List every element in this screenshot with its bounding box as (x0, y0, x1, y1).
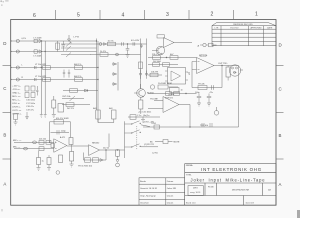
capacitor C1 (62, 41, 66, 51)
capacitor C7 (145, 71, 148, 79)
transistor Q2 legs (134, 89, 144, 97)
op-amp U5 (89, 145, 100, 156)
approval table (139, 178, 185, 205)
resistor R28 (46, 140, 51, 144)
resistor R29 (39, 147, 44, 151)
wire switch feed (124, 121, 126, 158)
svg-text:B: B (3, 133, 6, 138)
wire mid chain (90, 54, 141, 56)
svg-text:C16 100n: C16 100n (26, 100, 36, 102)
wire A1 out (174, 42, 192, 44)
wire drop x109 (108, 134, 110, 148)
wire output bus vertical (238, 66, 240, 128)
border frame tick top 3 (144, 10, 146, 20)
svg-text:6k8 1%: 6k8 1% (74, 76, 81, 78)
node tp junction (117, 149, 118, 150)
resistor R26 vertical (139, 100, 143, 109)
resistor R12 vertical (112, 110, 116, 119)
wire U3 in1 (154, 100, 163, 102)
capacitor C25 (130, 115, 136, 120)
svg-text:Joker Input Mike-Line-Tape: Joker Input Mike-Line-Tape (191, 177, 266, 182)
resistor R3 (100, 53, 108, 57)
wire top chain (97, 43, 147, 45)
op-amp U2 inputs (192, 62, 200, 70)
diode D5 (112, 63, 117, 66)
svg-text:REVISION RECORD: REVISION RECORD (233, 24, 253, 26)
border frame tick left 1 (3, 65, 11, 67)
node bus junction 2 (45, 79, 46, 80)
svg-text:TR 1k R32 10k: TR 1k R32 10k (78, 165, 93, 167)
IC block U1 (168, 68, 186, 85)
resistor R27 (39, 140, 44, 144)
svg-text:22k 1%: 22k 1% (152, 54, 159, 56)
wire C27 stub (39, 151, 50, 168)
capacitor C2 (122, 42, 124, 45)
diode D3 (104, 43, 107, 46)
wire line input D (11, 79, 98, 81)
capacitor C27 vertical (37, 158, 41, 165)
resistor R23 (174, 92, 180, 96)
svg-text:LIN R o-: LIN R o- (12, 107, 20, 109)
connector J8 (203, 43, 206, 46)
output connector XLR (229, 65, 240, 76)
resistor R11 vertical (96, 110, 100, 119)
svg-text:C: C (3, 86, 6, 91)
capacitor C21 (212, 85, 214, 90)
wire U4 fb up1 (49, 122, 51, 143)
switch S1a (125, 121, 141, 124)
node B1 (10, 51, 11, 52)
svg-text:ZEICHNUNGS NR: ZEICHNUNGS NR (232, 190, 250, 192)
wire R1 link (57, 41, 59, 52)
wire U5 fb rise (105, 150, 107, 160)
wire supply bus 1 (40, 41, 42, 115)
wire mic input 2 (14, 148, 54, 150)
wire R26 stubs (140, 97, 142, 114)
op-amp U2 (197, 58, 215, 74)
resistor R31 vertical (70, 152, 74, 162)
svg-text:C18 47u: C18 47u (26, 106, 35, 108)
wire R11 R12 link (98, 119, 114, 123)
wire U3 in2 (148, 108, 163, 110)
resistor R13 vertical (52, 100, 56, 108)
node x98 a (97, 67, 98, 68)
connector J5 (150, 85, 154, 89)
svg-text:APPROVED: APPROVED (250, 27, 262, 30)
wire row 75 (148, 74, 162, 76)
capacitor C16 (36, 86, 38, 96)
border frame tick right 3 (276, 158, 284, 160)
wire R25 stubs (227, 66, 229, 81)
svg-text:4: 4 (122, 12, 125, 18)
capacitor C14 (31, 86, 35, 91)
wire mid row 1 (63, 90, 98, 92)
capacitor C8 (35, 66, 37, 69)
node V1 (96, 40, 97, 41)
node C1 (10, 67, 11, 68)
svg-text:47u: 47u (210, 92, 213, 94)
wire mute out (168, 141, 173, 143)
wire mid row 3 (62, 104, 90, 106)
ground G5 (197, 103, 201, 106)
diode D4 (85, 89, 88, 92)
svg-text:Datum: Datum (167, 194, 174, 197)
svg-text:D: D (279, 43, 282, 48)
svg-text:RV1 10k: RV1 10k (63, 96, 72, 98)
svg-text:A: A (3, 182, 6, 187)
svg-text:LT 4148: LT 4148 (34, 38, 43, 40)
switch coupling dashed (136, 126, 138, 150)
svg-text:MUTE: MUTE (174, 141, 181, 143)
svg-text:OUT R o-: OUT R o- (12, 114, 22, 116)
node bus junction 1 (41, 67, 42, 68)
border frame tick left 2 (3, 112, 11, 114)
svg-text:A 471: A 471 (60, 136, 66, 139)
svg-text:Gepr.-Normgepr: Gepr.-Normgepr (140, 194, 156, 197)
svg-text:(C)12V TR: (C)12V TR (144, 144, 154, 146)
wire vertical x98 (97, 41, 99, 123)
svg-text:FIRMA: FIRMA (186, 164, 193, 167)
svg-text:10k TR: 10k TR (151, 71, 158, 73)
svg-text:TR2 10k: TR2 10k (200, 125, 209, 127)
node x98 b (97, 79, 98, 80)
connector J2 (16, 50, 19, 53)
svg-text:-15V o--: -15V o-- (12, 89, 20, 91)
wire U4 fb down (70, 122, 72, 138)
svg-text:MIC- o--: MIC- o-- (12, 100, 20, 102)
node row93 (185, 93, 186, 94)
resistor R8 (75, 78, 83, 82)
resistor R18 (153, 63, 160, 67)
node bus junction 1a (41, 40, 42, 41)
svg-text:1k 1%: 1k 1% (100, 51, 106, 53)
ground top arrow (68, 35, 71, 42)
resistor R36 vertical between mic wires (51, 144, 55, 148)
capacitor C10 (63, 70, 65, 78)
wire U2 inv drop (191, 62, 193, 88)
capacitor C6 (139, 70, 142, 79)
wire bottom row117 (128, 116, 160, 118)
node row57 (166, 57, 167, 58)
wire row 57 (148, 57, 197, 59)
wire mic input 1 (14, 141, 54, 143)
wire U5 fb bottom (84, 159, 107, 161)
op-amp A1 (164, 38, 175, 48)
switch S1c (125, 144, 140, 147)
resistor R1 (56, 43, 60, 49)
capacitor C29 on return wire (202, 123, 204, 127)
svg-text:B: B (279, 133, 282, 138)
resistor R17 (170, 56, 178, 60)
svg-text:47k 1% 100R: 47k 1% 100R (56, 118, 69, 120)
svg-text:D: D (3, 41, 6, 46)
resistor R10 (66, 103, 74, 107)
wire S1a out (141, 125, 150, 127)
wire vertical x140 (140, 39, 142, 89)
wire U2 fb horizontal (192, 87, 222, 89)
svg-text:C2 R1: C2 R1 (152, 152, 159, 154)
svg-text:2k2 1k: 2k2 1k (103, 147, 110, 149)
wire U2 out (214, 65, 239, 67)
svg-text:DWG: DWG (193, 188, 198, 190)
capacitor C20 (14, 114, 18, 123)
svg-text:ECO NO: ECO NO (231, 28, 239, 30)
wire line input C (11, 67, 98, 69)
revision record table (212, 22, 276, 45)
capacitor C11 (68, 70, 70, 78)
wire Q2 collector (140, 84, 142, 89)
resistor R2 (108, 42, 116, 46)
connector pin list text column (12, 86, 22, 116)
resistor R35 on return wire (154, 125, 160, 129)
resistor R9 (70, 89, 78, 93)
svg-text:LIN L o-: LIN L o- (12, 103, 20, 105)
resistor R16 (153, 56, 161, 60)
svg-text:+15 C15 100n: +15 C15 100n (138, 112, 152, 114)
ground G6 (207, 103, 211, 106)
svg-text:FLSB: FLSB (208, 186, 214, 188)
wire U3 out drop (189, 105, 191, 128)
svg-text:C 1u: C 1u (137, 115, 141, 117)
testpoint TP2 (116, 150, 120, 157)
svg-text:sheet 1/3: sheet 1/3 (246, 202, 255, 205)
potentiometer P2 (61, 46, 97, 51)
decoupling label rows (26, 100, 36, 112)
svg-text:LTR: LTR (215, 28, 219, 30)
resistor R21 (158, 85, 168, 89)
svg-text:5: 5 (77, 13, 80, 19)
border frame tick top 4 (188, 10, 190, 20)
wire U3 out (179, 104, 190, 106)
node U4 junction (49, 142, 50, 143)
resistor R5 (43, 66, 51, 70)
capacitor C26 (57, 130, 59, 134)
svg-text:A: A (279, 182, 282, 187)
capacitor C24 (170, 88, 180, 93)
resistor R32 (85, 158, 91, 162)
svg-text:C19 47u: C19 47u (26, 109, 35, 111)
transistor Q2 (137, 89, 146, 98)
connector J3 (16, 66, 19, 69)
ground arrow G4 (26, 112, 29, 119)
resistor R34 (209, 43, 214, 47)
connector circle pair 2 (116, 53, 119, 56)
wire line input A (11, 40, 97, 42)
wire U5 out (100, 149, 125, 151)
transistor Q1 (156, 46, 164, 54)
capacitor C3 (126, 44, 130, 54)
svg-text:Gesehen: Gesehen (140, 202, 150, 204)
capacitor C13 (25, 93, 29, 98)
border frame tick right 1 (276, 65, 284, 67)
svg-text:47u 63V: 47u 63V (131, 40, 140, 42)
wire R31 stubs (71, 145, 73, 165)
node U5 out junction (105, 149, 106, 150)
wire line input B (11, 51, 97, 53)
ground G8 (37, 168, 41, 171)
svg-text:OUT L o-: OUT L o- (12, 110, 21, 112)
capacitor C15 (31, 93, 35, 98)
resistor R22 (166, 92, 172, 96)
svg-text:Datum: Datum (167, 180, 174, 183)
resistor R37 vertical (69, 138, 73, 145)
svg-text:Stand 1.10: Stand 1.10 (186, 202, 197, 205)
svg-text:OUT TR L: OUT TR L (218, 63, 229, 65)
node bus junction 2a (45, 51, 46, 52)
ground G10 (70, 164, 74, 167)
resistor R20 (150, 73, 158, 77)
wire S1c out (141, 146, 158, 148)
node U2 out (221, 65, 222, 66)
resistor R30 (54, 120, 64, 124)
title block size cell (188, 186, 203, 196)
svg-text:MIC+ ----: MIC+ ---- (13, 140, 22, 142)
svg-text:BC550: BC550 (147, 93, 154, 95)
wire vertical x146 (146, 39, 148, 77)
svg-text:10-100R TRIM: 10-100R TRIM (158, 83, 172, 85)
svg-text:2k2 6k8: 2k2 6k8 (153, 61, 161, 63)
svg-text:C: C (279, 87, 282, 92)
svg-text:MIC- ---: MIC- --- (13, 147, 20, 149)
relay K1 (163, 140, 168, 144)
svg-text:1k 1%: 1k 1% (108, 40, 114, 42)
ground G3 (14, 122, 18, 125)
op-amp U3 (163, 97, 179, 113)
svg-text:6k8 1%: 6k8 1% (74, 64, 81, 66)
switch S1b (125, 130, 140, 133)
capacitor C22 (197, 94, 201, 104)
node long return (189, 126, 190, 127)
wire U4 fb top (50, 121, 71, 123)
resistor R25 vertical (226, 67, 230, 77)
connector circle pair (99, 43, 102, 46)
title block (185, 164, 276, 206)
diode D1 (34, 39, 42, 42)
diode D8 (100, 159, 103, 162)
wire vertical bus x96 (96, 39, 98, 111)
diode D7 (112, 83, 117, 86)
svg-text:Joker NR: Joker NR (167, 187, 177, 190)
svg-text:L P B: L P B (74, 37, 80, 39)
resistor R33 (93, 158, 99, 162)
svg-text:C17 100n: C17 100n (26, 103, 36, 105)
wire U5 fb drop (83, 153, 85, 161)
svg-text:3: 3 (166, 12, 169, 18)
svg-text:1: 1 (255, 11, 258, 17)
svg-text:Gezeich 16.10.91: Gezeich 16.10.91 (140, 188, 158, 190)
ground bus1 (40, 115, 43, 118)
IC block U1 inner (171, 71, 181, 81)
connector J6 (33, 141, 37, 144)
svg-text:22k 22k: 22k 22k (39, 139, 46, 141)
testpoint TP1 (216, 107, 218, 111)
border frame tick top 1 (55, 10, 57, 20)
resistor R24 (198, 86, 207, 90)
node A1 (10, 40, 11, 41)
wire row 64 (148, 64, 178, 66)
potentiometer P4 (70, 96, 76, 101)
svg-text:ausg. 16.91: ausg. 16.91 (190, 192, 201, 194)
svg-text:2k2 1%: 2k2 1% (67, 108, 74, 110)
transistor Q1 legs (152, 47, 163, 55)
svg-text:TR 22k: TR 22k (198, 84, 206, 86)
resistor R14 vertical (58, 104, 64, 113)
wire long return (143, 126, 239, 128)
wire U2 fb vertical (221, 66, 223, 88)
capacitor C31 vertical (59, 155, 63, 163)
border frame (11, 20, 276, 206)
svg-text:DATE: DATE (267, 27, 273, 30)
potentiometer P3 (61, 53, 91, 58)
svg-text:Datum: Datum (167, 201, 174, 204)
ground G2 (52, 115, 56, 118)
svg-text:INT ELEKTRONIK OHG: INT ELEKTRONIK OHG (201, 167, 262, 172)
capacitor C9 (35, 78, 37, 81)
capacitor C30 on return wire (210, 123, 212, 127)
svg-text:+15V L+TR: +15V L+TR (143, 122, 154, 124)
wire vertical x118 (117, 62, 119, 91)
ground G1 (126, 55, 130, 58)
resistor R15 (157, 35, 165, 38)
svg-text:+15V o--: +15V o-- (12, 86, 21, 88)
potentiometer P1 (61, 42, 97, 47)
capacitor C12 (25, 86, 29, 91)
ground bus2 (44, 115, 47, 118)
wire mid row 2 (62, 98, 84, 100)
svg-text:MIC+ o--: MIC+ o-- (12, 96, 21, 98)
border frame tick top 5 (233, 10, 235, 20)
border frame tick left 3 (3, 158, 11, 160)
svg-text:Bearb: Bearb (140, 180, 147, 183)
border frame tick right 2 (276, 112, 284, 114)
IC U1 pins (165, 71, 188, 81)
svg-text:NE5534: NE5534 (199, 56, 208, 58)
connector J4 (16, 78, 19, 81)
border frame tick top 2 (99, 10, 101, 20)
svg-text:NE5532: NE5532 (92, 143, 100, 145)
capacitor C4 (133, 42, 135, 45)
svg-text:1u: 1u (42, 161, 44, 163)
resistor R7 (43, 78, 51, 82)
wire row 93 (148, 93, 197, 95)
wire U4 out (67, 145, 89, 147)
node D1n (10, 79, 11, 80)
svg-text:(4x) 1n: (4x) 1n (143, 115, 150, 117)
svg-text:2: 2 (211, 12, 214, 18)
svg-text:LF356: LF356 (168, 94, 175, 96)
svg-text:GND o--: GND o-- (12, 93, 20, 95)
resistor R4 (139, 62, 143, 69)
svg-text:LT 10u 63V: LT 10u 63V (35, 64, 47, 66)
wire xlr stub (240, 69, 243, 71)
connector J7 (24, 147, 28, 150)
wire J8 link (200, 44, 217, 46)
capacitor C23 (207, 94, 211, 104)
wire R21 out (168, 86, 178, 88)
ground G9 (47, 168, 51, 171)
svg-text:0,1%: 0,1% (22, 38, 27, 40)
svg-text:LT 10u 63V: LT 10u 63V (35, 76, 47, 78)
diode D6 (112, 73, 117, 76)
capacitor C5 (140, 44, 142, 49)
capacitor C28 vertical (47, 158, 51, 165)
svg-text:1n: 1n (181, 90, 183, 92)
resistor R19 (163, 63, 170, 67)
connector J1 (16, 39, 19, 42)
wire fb row2 (51, 131, 70, 133)
wire mute (155, 141, 163, 143)
node T1 (127, 43, 128, 44)
